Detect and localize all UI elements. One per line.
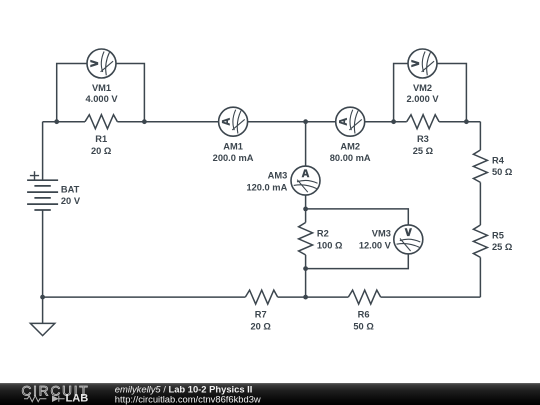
voltmeter VM1 bbox=[87, 49, 116, 78]
footer bar bbox=[0, 383, 540, 405]
wire VM3 loop bottom bbox=[306, 254, 409, 269]
wire right rail bottom segment bbox=[479, 257, 481, 297]
resistor R7 zigzag bbox=[245, 290, 277, 304]
svg-text:R3: R3 bbox=[417, 134, 429, 144]
svg-text:AM2: AM2 bbox=[340, 142, 360, 152]
resistor R6 zigzag bbox=[348, 290, 380, 304]
voltmeter VM2 bbox=[408, 49, 437, 78]
wire left rail to battery bbox=[42, 122, 44, 181]
svg-text:20 Ω: 20 Ω bbox=[251, 322, 272, 332]
voltmeter VM3 bbox=[394, 225, 423, 254]
wire bottom rail left segment bbox=[43, 296, 246, 298]
resistor R3 zigzag bbox=[407, 115, 439, 129]
node dot ground bbox=[40, 295, 45, 300]
svg-text:12.00 V: 12.00 V bbox=[359, 241, 392, 251]
svg-text:80.00 mA: 80.00 mA bbox=[330, 153, 371, 163]
svg-text:R2: R2 bbox=[317, 229, 329, 239]
wire right rail middle segment bbox=[479, 182, 481, 225]
battery plus sign bbox=[30, 171, 39, 180]
svg-text:25 Ω: 25 Ω bbox=[413, 146, 434, 156]
node dot VM2 left bbox=[391, 119, 396, 124]
node dot R2 bottom bbox=[303, 266, 308, 271]
battery BAT plate short 3 bbox=[34, 209, 50, 211]
node dot bottom middle bbox=[303, 295, 308, 300]
node dot AM3 branch top bbox=[303, 119, 308, 124]
svg-text:50 Ω: 50 Ω bbox=[492, 167, 513, 177]
battery BAT plate short 1 bbox=[34, 185, 50, 187]
svg-text:VM3: VM3 bbox=[372, 229, 391, 239]
svg-text:4.000 V: 4.000 V bbox=[85, 94, 118, 104]
ammeter AM3 bbox=[291, 166, 320, 195]
wire node to bottom rail bbox=[305, 269, 307, 298]
ammeter AM2 bbox=[336, 107, 365, 136]
node dot R2 top bbox=[303, 207, 308, 212]
svg-text:20 Ω: 20 Ω bbox=[91, 146, 112, 156]
wire VM1 branch right bbox=[116, 64, 145, 122]
svg-text:R4: R4 bbox=[492, 156, 505, 166]
svg-text:R7: R7 bbox=[255, 309, 267, 319]
svg-text:2.000 V: 2.000 V bbox=[406, 94, 439, 104]
wire top main rail middle segment bbox=[117, 121, 406, 123]
svg-text:200.0 mA: 200.0 mA bbox=[213, 153, 254, 163]
wire battery to bottom rail bbox=[42, 210, 44, 297]
svg-text:http://circuitlab.com/ctnv86f6: http://circuitlab.com/ctnv86f6kbd3w bbox=[115, 393, 261, 404]
resistor R5 zigzag bbox=[473, 225, 487, 257]
resistor R1 zigzag bbox=[85, 115, 117, 129]
node dot VM2 right bbox=[464, 119, 469, 124]
svg-text:R1: R1 bbox=[95, 134, 107, 144]
wire AM3 to node bbox=[305, 195, 307, 209]
battery BAT plate long 2 bbox=[27, 191, 58, 193]
node dot VM1 left bbox=[54, 119, 59, 124]
wire AM3 branch upper bbox=[305, 122, 307, 167]
svg-text:R6: R6 bbox=[358, 309, 370, 319]
svg-text:120.0 mA: 120.0 mA bbox=[246, 182, 287, 192]
resistor R4 zigzag bbox=[473, 150, 487, 182]
logo doodle resistor and diode bbox=[24, 396, 65, 402]
wire bottom rail right segment bbox=[381, 296, 481, 298]
svg-text:BAT: BAT bbox=[61, 185, 80, 195]
ammeter AM1 bbox=[219, 107, 248, 136]
wire R2 bottom lead bbox=[305, 255, 307, 269]
svg-text:LAB: LAB bbox=[66, 392, 89, 404]
wire top main rail left segment bbox=[43, 121, 85, 123]
wire VM3 loop top bbox=[306, 209, 409, 225]
wire bottom rail middle segment bbox=[278, 296, 349, 298]
svg-text:VM1: VM1 bbox=[92, 83, 111, 93]
wire VM1 branch left bbox=[57, 64, 88, 122]
wire R2 top lead bbox=[305, 209, 307, 223]
svg-text:100 Ω: 100 Ω bbox=[317, 241, 343, 251]
svg-text:25 Ω: 25 Ω bbox=[492, 242, 513, 252]
wire VM2 branch right bbox=[437, 64, 467, 122]
resistor R2 zigzag bbox=[299, 223, 313, 255]
svg-text:20 V: 20 V bbox=[61, 196, 81, 206]
battery BAT plate short 2 bbox=[34, 197, 50, 199]
svg-text:50 Ω: 50 Ω bbox=[353, 322, 374, 332]
wire right rail top segment bbox=[479, 122, 481, 150]
node dot VM1 right bbox=[142, 119, 147, 124]
wire VM2 branch left bbox=[394, 64, 409, 122]
ground symbol bbox=[30, 297, 54, 336]
wire top main rail right segment bbox=[439, 121, 480, 123]
svg-text:AM1: AM1 bbox=[223, 142, 243, 152]
svg-text:AM3: AM3 bbox=[268, 171, 288, 181]
battery BAT plate long 1 bbox=[27, 179, 58, 181]
battery BAT plate long 3 bbox=[27, 203, 58, 205]
svg-text:VM2: VM2 bbox=[413, 83, 432, 93]
svg-text:R5: R5 bbox=[492, 230, 504, 240]
